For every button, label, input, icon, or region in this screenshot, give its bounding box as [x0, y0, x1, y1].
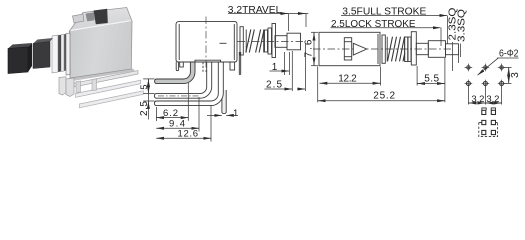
- svg-text:1: 1: [233, 108, 238, 119]
- body A right foot: [230, 62, 235, 70]
- DRAWING A: dimensions: [143, 14, 308, 142]
- dim 12.2: [380, 67, 382, 86]
- spring plate B: [382, 35, 385, 63]
- 3d left leg tab 2: [59, 77, 66, 95]
- hole pattern texts: [471, 49, 521, 106]
- dim 3 vertical: [504, 67, 512, 83]
- svg-text:3.2TRAVEL: 3.2TRAVEL: [228, 5, 282, 16]
- 3.3SQ leader: [460, 44, 462, 58]
- pad 5: [482, 130, 486, 134]
- body A left foot: [180, 62, 184, 67]
- svg-text:7.6: 7.6: [304, 39, 315, 57]
- dim tick pin3: [143, 100, 154, 102]
- dim tick pin1: [143, 78, 154, 80]
- 3d box top face: [69, 8, 132, 32]
- 3d collar plate near box: [66, 33, 70, 75]
- DRAWING A: dimension texts: [139, 5, 283, 140]
- dim tick pin2: [143, 93, 154, 95]
- 3.3SQ leader / tip end ext: [458, 55, 460, 63]
- svg-text:6.2: 6.2: [163, 108, 178, 119]
- 6-phi2 leader: [497, 57, 519, 59]
- svg-text:3.2: 3.2: [471, 94, 484, 105]
- plunger tip B: [446, 44, 459, 55]
- spring A end wire: [245, 30, 247, 53]
- hole 4: [466, 81, 470, 85]
- pad 2: [491, 110, 495, 114]
- 2.3SQ leader: [452, 42, 454, 71]
- pin stub behind plate: [239, 52, 240, 75]
- svg-text:3.5FULL STROKE: 3.5FULL STROKE: [342, 7, 426, 18]
- dim 7.6: [311, 31, 318, 33]
- svg-text:25.2: 25.2: [373, 90, 395, 101]
- 3d top slot inner step: [86, 12, 95, 21]
- dim 3.2TRAVEL line: [228, 13, 308, 15]
- hole 3: [500, 66, 503, 69]
- body A hidden lines below slot: [202, 62, 204, 73]
- 3d shaft block top: [33, 38, 53, 44]
- 3d button cube top: [8, 43, 32, 49]
- body A bottom slot: [195, 60, 221, 62]
- footprint hook top right: [491, 108, 495, 110]
- spring A coils: [246, 30, 264, 53]
- 3d collar bright plate: [52, 35, 58, 73]
- 3d box top front bright edge: [71, 21, 132, 31]
- 3d leg strip 2: [76, 80, 141, 97]
- svg-text:12.2: 12.2: [338, 73, 357, 84]
- 3d top slot dark: [94, 9, 108, 24]
- DRAWING B: texts: [304, 7, 468, 102]
- 3d collar bright ring: [61, 34, 64, 71]
- 3d shaft block front: [33, 42, 50, 69]
- spring B coils: [388, 37, 405, 62]
- body B rect: [319, 32, 380, 65]
- 3d box front face: [69, 21, 132, 78]
- PCB hole pattern: [465, 58, 519, 105]
- axis center line B: [313, 48, 452, 50]
- svg-text:6-Φ2: 6-Φ2: [499, 49, 519, 60]
- pad 3: [482, 120, 486, 124]
- pad 4: [491, 120, 495, 124]
- spring plate at body A: [240, 27, 243, 55]
- body A tick mark: [220, 42, 227, 44]
- plunger cylinder: [287, 33, 301, 50]
- hole 5: [483, 81, 487, 85]
- 3d left leg tab: [66, 78, 74, 97]
- 2.5LOCK STROKE underline: [331, 27, 432, 29]
- svg-text:3.3SQ: 3.3SQ: [457, 9, 468, 42]
- dim 1 pin width: [207, 114, 222, 116]
- body B inner right line: [377, 34, 379, 64]
- dim 6.2: [155, 107, 157, 121]
- svg-text:2.5: 2.5: [139, 101, 150, 116]
- body A inner right line: [233, 24, 235, 60]
- 3d shadow under box: [67, 69, 135, 82]
- dim 1 plunger: [284, 52, 286, 75]
- 3d button cube right: [28, 43, 32, 72]
- dim 9.4: [198, 97, 200, 132]
- DRAWING B: top view body: [313, 32, 459, 66]
- footprint hook top left: [482, 108, 486, 110]
- 3d leg strip 3: [79, 91, 143, 108]
- pin 2: [154, 62, 211, 98]
- footprint dashed outline: [479, 123, 498, 137]
- pin 4 going down: [222, 90, 226, 114]
- pin 1 (top, grey): [155, 62, 195, 84]
- axis center line A: [238, 41, 305, 43]
- svg-text:5: 5: [139, 85, 150, 90]
- plunger neck B: [416, 43, 428, 54]
- plunger plate B2: [408, 37, 411, 62]
- pad 6: [491, 130, 495, 134]
- hole 2: [484, 66, 487, 69]
- footprint hook mid right: [495, 122, 497, 124]
- plunger neck: [275, 36, 287, 48]
- plunger plate B1: [405, 37, 408, 62]
- 3d collar dark ring: [58, 35, 61, 72]
- hole row center lines: [465, 64, 506, 88]
- plunger cylinder B: [428, 41, 445, 58]
- dim 2.5 plunger: [291, 51, 293, 91]
- plunger plate 2: [268, 28, 272, 54]
- 3d leg strip 1: [74, 71, 138, 88]
- svg-text:5.5: 5.5: [424, 73, 439, 84]
- 3d top small notch: [73, 14, 85, 23]
- dim 12.6: [210, 105, 212, 142]
- body B slot: [344, 38, 351, 60]
- 3d leg connector: [76, 81, 81, 93]
- DRAWING B: stroke labels and dims: [311, 16, 461, 103]
- hole 1: [467, 66, 470, 69]
- 3d leg connector 2: [92, 79, 97, 91]
- dim 5 / 2.5 vertical line: [147, 79, 149, 120]
- dim 3.2 3.2: [468, 87, 501, 105]
- DRAWING A: spring and plunger: [238, 24, 305, 58]
- body A outline: [176, 22, 237, 62]
- svg-text:2.5: 2.5: [266, 80, 282, 91]
- PCB footprint bottom right: [479, 108, 498, 137]
- 3D photo render of push switch: [8, 8, 143, 108]
- dim 25.2: [317, 67, 319, 103]
- plunger plate 1: [265, 30, 268, 52]
- dim 5.5: [416, 66, 418, 86]
- svg-text:3: 3: [509, 72, 521, 78]
- pin 3: [154, 62, 223, 106]
- svg-text:12.6: 12.6: [178, 129, 199, 140]
- body B triangle marker: [353, 43, 366, 55]
- plunger flange B: [411, 32, 416, 65]
- DRAWING A: side view with bent PCB pins: [154, 17, 240, 114]
- svg-text:1: 1: [272, 62, 278, 73]
- body A inner left line: [178, 24, 180, 60]
- pad 1: [482, 110, 486, 114]
- 3d button cube front: [8, 47, 28, 74]
- body A left lug: [176, 62, 178, 71]
- svg-text:3.2: 3.2: [486, 94, 499, 105]
- footprint hook mid left: [479, 122, 482, 124]
- pin 2 center line: [158, 95, 200, 97]
- hole 6: [500, 81, 504, 85]
- body A center line: [205, 17, 207, 75]
- plunger plate 3: [272, 24, 276, 58]
- 3.5FULL STROKE underline: [341, 15, 437, 17]
- svg-text:2.5LOCK STROKE: 2.5LOCK STROKE: [331, 19, 416, 30]
- 3d collar dark gap: [64, 34, 66, 71]
